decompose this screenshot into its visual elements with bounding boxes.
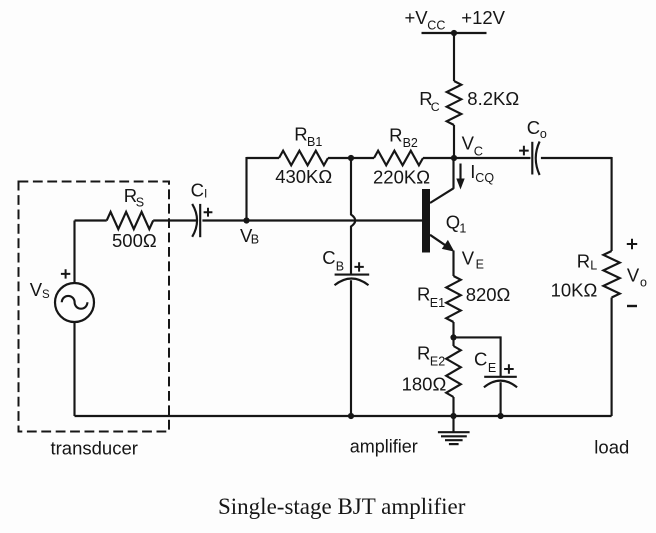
svg-text:+12V: +12V [461,7,505,28]
resistor RC [447,81,462,125]
wire Vcc power rail [422,32,487,34]
svg-text:430KΩ: 430KΩ [275,166,332,187]
label RE1 [417,284,445,310]
svg-text:L: L [590,259,597,273]
svg-text:S: S [136,196,144,210]
svg-text:o: o [540,127,547,141]
node Vcc junction [451,30,457,36]
polarity + of Vs [61,269,70,278]
svg-text:E: E [488,361,496,375]
svg-text:S: S [42,289,50,301]
polarity + of Vo [627,239,637,249]
label Q1 [446,211,467,235]
svg-text:C: C [191,180,204,201]
wire CE lead down [500,336,502,376]
polarity + of CE [504,364,514,374]
node Vc junction [451,155,457,161]
label Vs [30,279,50,301]
wire rail down to Vb [245,157,247,221]
label RB1 [294,123,322,149]
wire Vcc to Rc top [453,32,455,81]
svg-text:transducer: transducer [51,437,138,458]
capacitor Ci plates [192,204,200,237]
wire Vb to base [247,219,423,221]
svg-text:C: C [431,100,440,114]
svg-text:amplifier: amplifier [350,437,418,457]
svg-text:R: R [577,251,590,272]
node CE/ground junction [498,413,504,419]
svg-text:V: V [462,133,475,154]
label Co [527,117,547,141]
wire Ci to Vb [202,219,246,221]
polarity + of Ci [204,208,213,217]
wire Rs to Ci [153,219,196,221]
polarity - of Vo [627,305,637,307]
polarity + of Co [519,146,529,156]
svg-text:10KΩ: 10KΩ [551,279,598,300]
label Vb [240,225,259,246]
capacitor CE plates [484,377,517,388]
ground symbol [438,416,470,444]
svg-text:C: C [322,247,335,268]
wire Vs top to Rs [73,221,75,284]
wire junction to CE top [454,336,501,338]
svg-text:I: I [204,187,207,201]
svg-text:B: B [336,259,344,273]
label Icq [470,161,494,185]
wire base rail left segment [247,157,280,159]
svg-text:R: R [389,124,402,145]
label RS [124,185,144,210]
resistor RB2 [374,151,423,166]
svg-text:C: C [474,143,483,158]
node RE2/ground junction [450,413,456,419]
resistor RE2 [446,346,461,397]
svg-text:+V: +V [405,7,429,28]
svg-text:8.2KΩ: 8.2KΩ [467,88,519,109]
polarity + of CB [354,262,363,271]
svg-text:R: R [294,123,307,144]
resistor RL [603,251,619,298]
svg-text:220KΩ: 220KΩ [373,167,430,188]
node CB/ground junction [348,413,354,419]
wire emitter down [452,251,454,277]
svg-text:Q: Q [446,211,460,232]
wire Vs left lead [75,219,107,221]
wire RE2 to ground rail [452,397,454,416]
svg-text:E: E [476,257,484,271]
svg-text:R: R [417,343,430,364]
wire ground rail [75,415,612,417]
resistor RB1 [279,151,328,166]
wire load vertical bottom [611,298,613,417]
svg-text:C: C [527,117,540,138]
svg-text:C: C [474,348,487,369]
svg-text:Single-stage BJT amplifier: Single-stage BJT amplifier [218,494,466,519]
label Vc [462,133,483,159]
wire Co to load [541,157,612,159]
svg-text:load: load [594,436,629,457]
svg-text:B: B [251,232,259,246]
label Ve [462,248,484,272]
svg-text:180Ω: 180Ω [402,374,447,395]
label RE2 [417,343,445,369]
svg-text:B2: B2 [403,136,418,150]
label Vo [627,265,647,290]
svg-text:R: R [417,284,430,305]
label RC [419,88,440,114]
wire RB1 to RB2 [328,157,374,159]
node RE1/RE2/CE junction [450,334,456,340]
svg-text:1: 1 [459,222,466,236]
transistor Q1 [422,157,454,253]
wire CB to ground rail [350,280,352,416]
wire Rc bottom to Vc node [453,125,455,158]
transducer dashed box [19,182,170,432]
label Ci [191,180,208,201]
label +Vcc [405,7,446,33]
wire Vs bottom to ground rail [73,322,75,416]
node Vb junction [243,217,249,223]
source Vs [55,283,94,322]
svg-text:820Ω: 820Ω [466,284,511,305]
wire CE to ground rail [500,382,502,416]
wire RB junction down with hop over base wire [351,158,355,275]
svg-text:CC: CC [427,18,445,32]
svg-text:B1: B1 [307,135,322,149]
svg-text:E1: E1 [430,296,445,310]
svg-text:V: V [627,265,640,286]
capacitor CB plates [335,275,370,286]
capacitor Co plates [532,142,539,176]
svg-text:CQ: CQ [475,171,494,185]
wire load vertical top [611,157,613,251]
current arrow Icq [456,164,464,190]
svg-text:o: o [640,275,647,289]
svg-text:V: V [30,279,43,300]
svg-text:E2: E2 [430,354,445,368]
wire RE1 to junction [452,322,454,346]
wire RB2 to Co [423,157,531,159]
label RL [577,251,597,273]
label RB2 [389,124,418,150]
label CE [474,348,496,374]
resistor RS [107,212,154,229]
svg-text:500Ω: 500Ω [112,230,157,251]
label CB [322,247,344,273]
resistor RE1 [446,276,461,322]
node RB1/RB2 junction [348,155,354,161]
svg-text:V: V [462,248,475,269]
